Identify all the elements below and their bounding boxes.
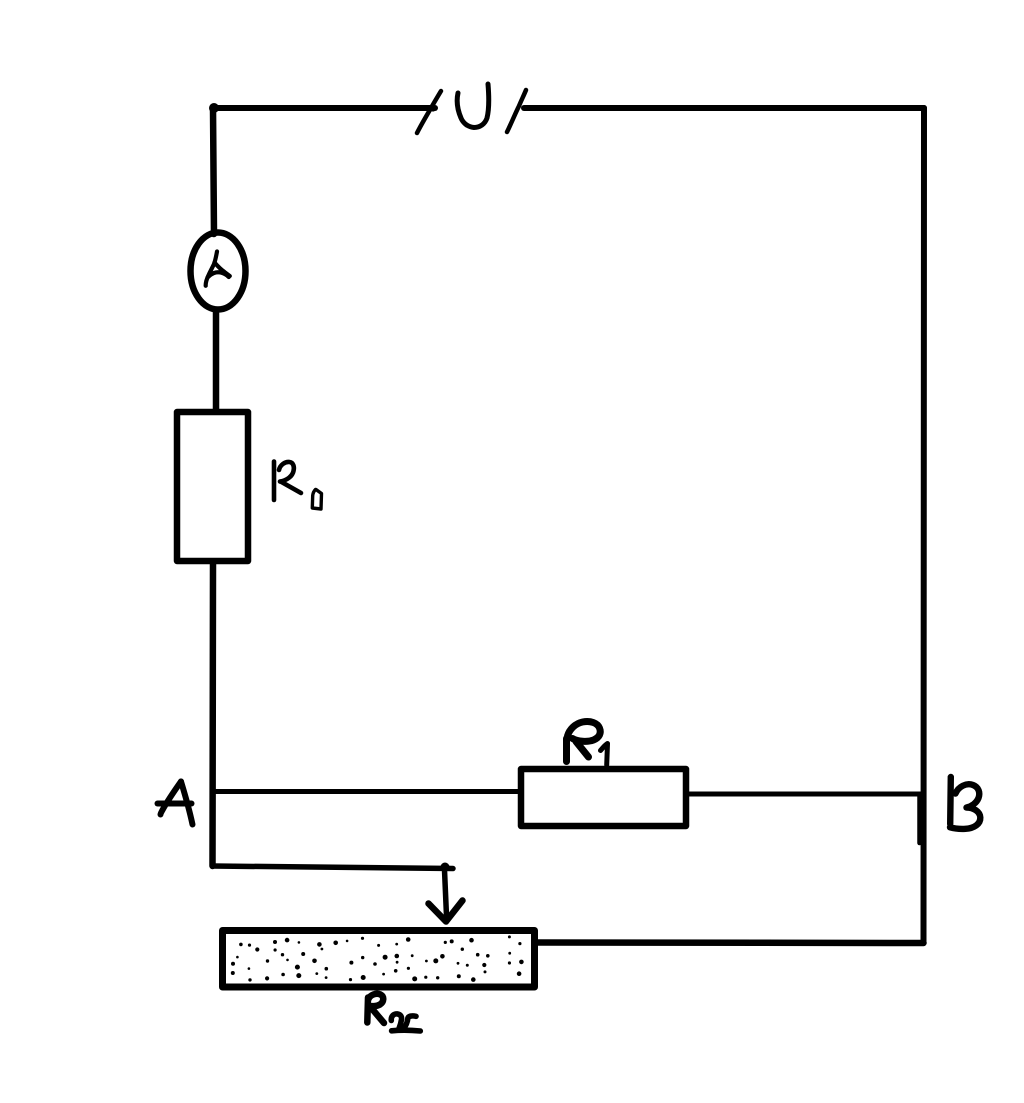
node B label [950, 777, 980, 829]
rheostat stipple dots [231, 935, 524, 981]
wire node A bottom jog horizontal [213, 866, 454, 869]
slider arrow head [429, 901, 463, 922]
wire bottom right horizontal to rheostat [538, 939, 924, 946]
wire right vertical overdrawn stroke [917, 795, 922, 843]
source terminal slash left [417, 91, 441, 133]
junction dot at slider wire [441, 863, 450, 872]
ammeter letter A [206, 252, 230, 286]
ammeter U1 circle [191, 233, 246, 310]
wire right vertical [921, 108, 928, 943]
source label U [457, 84, 488, 128]
label R0 [274, 462, 301, 501]
wire R0 to node A and down [209, 564, 216, 866]
resistor R1 box [521, 769, 686, 826]
wire top right segment [524, 105, 924, 111]
label Rx subscript x [391, 1014, 420, 1031]
wire ammeter to R0 [213, 310, 220, 409]
label Rx [367, 994, 384, 1023]
node dot at wire end near source [429, 104, 436, 111]
label R0 subscript 0 [312, 490, 321, 510]
junction dot top-left corner [209, 103, 219, 113]
resistor R0 box [177, 412, 248, 561]
rheostat Rx box [223, 931, 535, 988]
wire left vertical to ammeter [213, 108, 214, 234]
node A label [158, 782, 193, 825]
label R1 [567, 721, 601, 761]
wire R1 to node B [686, 792, 922, 797]
source terminal slash right [507, 90, 526, 132]
label R1 subscript 1 [601, 744, 608, 766]
slider arrow shaft [445, 870, 447, 916]
wire node A to R1 [213, 789, 519, 794]
wire top left segment [213, 105, 435, 111]
